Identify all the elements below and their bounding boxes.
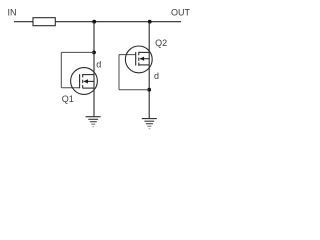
wire Q1 gate loop left [60, 52, 62, 87]
node A junction dot [92, 20, 96, 24]
junction Q2 gate-drain dot [147, 88, 151, 92]
svg-text:Q2: Q2 [155, 38, 167, 48]
svg-text:IN: IN [8, 8, 17, 18]
svg-text:d: d [154, 71, 159, 81]
transistor Q1 (NMOS, diode-connected) [71, 68, 98, 95]
ground GND1 [86, 117, 101, 127]
ground GND2 [142, 119, 157, 129]
wire Q2 gate loop bottom [119, 89, 149, 91]
svg-text:d: d [96, 60, 101, 70]
transistor Q2 (NMOS, flipped, diode-connected) [125, 46, 152, 73]
wire Q2 gate loop left [118, 55, 120, 90]
wire Q1 gate lead [61, 87, 79, 89]
svg-text:OUT: OUT [171, 8, 191, 18]
svg-text:Q1: Q1 [62, 94, 74, 104]
wire Q2 gate lead (top horizontal) [119, 54, 136, 56]
wire node A to Q1 drain-source (vertical) [93, 22, 95, 117]
wire IN to R1 [14, 21, 34, 23]
wire R1 to OUT [55, 21, 181, 23]
wire node B to Q2 drain-source (vertical) [148, 22, 150, 119]
node B junction dot [148, 20, 152, 24]
resistor R1 [33, 18, 55, 26]
wire Q1 gate loop top [61, 51, 94, 53]
junction Q1 gate-drain dot [92, 51, 96, 55]
